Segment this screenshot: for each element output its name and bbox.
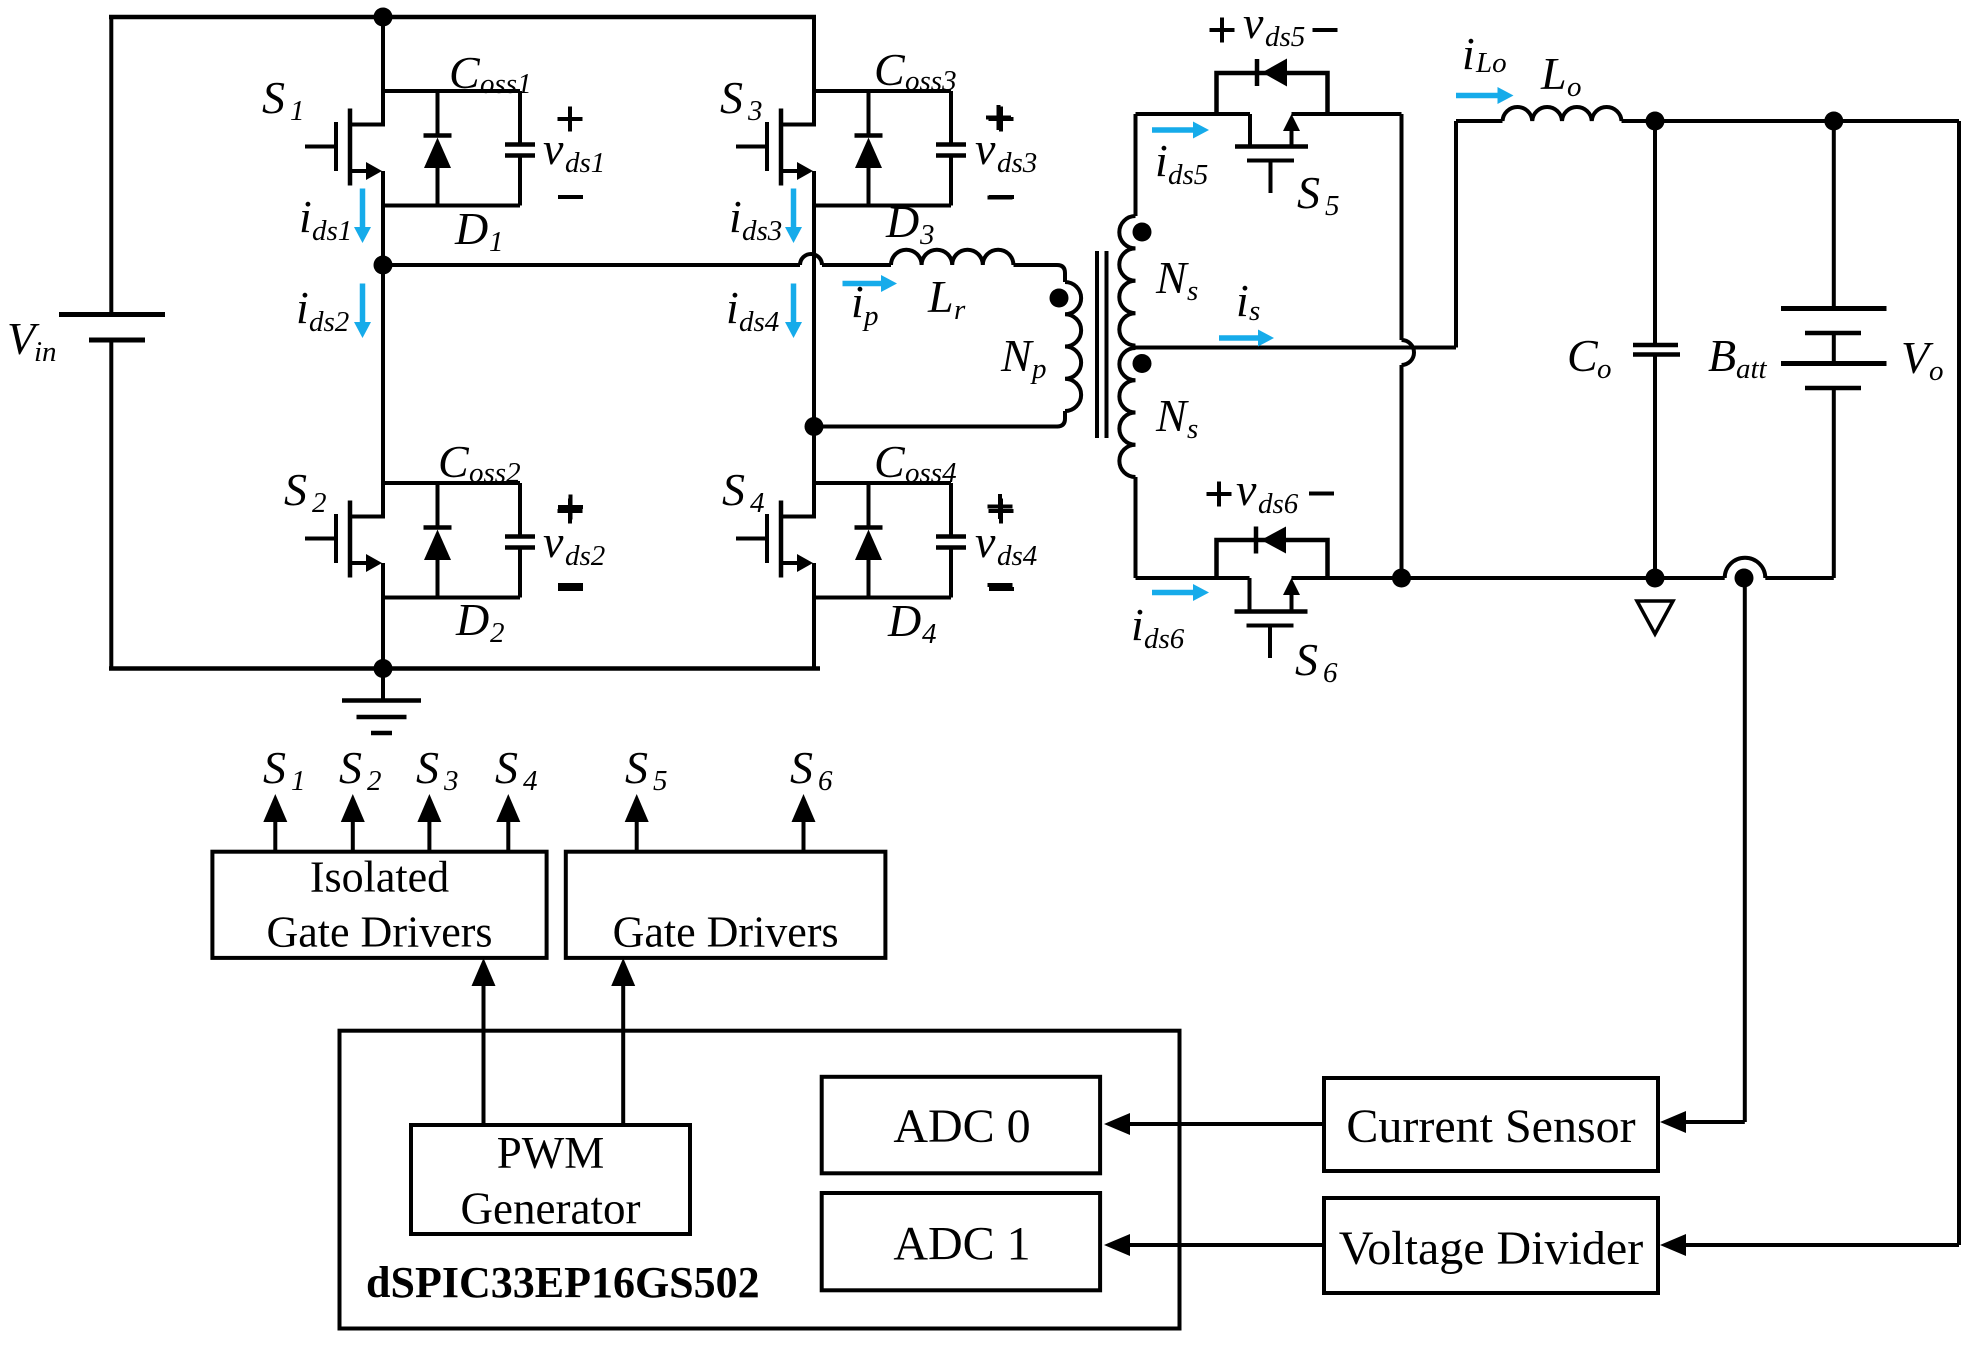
svg-text:4: 4 [523,765,538,797]
svg-text:S: S [722,464,745,515]
svg-text:Gate Drivers: Gate Drivers [266,908,492,957]
svg-text:ds4: ds4 [997,540,1037,572]
svg-text:5: 5 [1325,190,1340,222]
svg-text:N: N [1155,390,1189,441]
svg-text:v: v [543,123,564,174]
svg-text:B: B [1708,330,1736,381]
svg-text:N: N [1000,330,1034,381]
svg-text:ds3: ds3 [742,215,782,247]
svg-text:S: S [262,72,285,123]
svg-text:Current Sensor: Current Sensor [1346,1100,1635,1153]
svg-text:i: i [726,282,739,333]
svg-text:3: 3 [919,219,935,251]
svg-text:C: C [449,47,481,98]
svg-text:S: S [339,742,362,793]
svg-text:i: i [299,191,312,242]
svg-text:S: S [495,742,518,793]
svg-text:s: s [1187,275,1198,307]
svg-text:p: p [1030,353,1047,385]
svg-text:i: i [1155,135,1168,186]
svg-text:p: p [862,300,879,332]
svg-text:s: s [1249,295,1260,327]
svg-text:oss2: oss2 [469,457,521,489]
svg-text:ds1: ds1 [312,215,352,247]
svg-text:Lo: Lo [1475,47,1507,79]
svg-text:1: 1 [291,765,306,797]
svg-text:ds6: ds6 [1258,488,1299,520]
svg-text:ds4: ds4 [739,306,779,338]
svg-text:D: D [887,595,921,646]
svg-text:S: S [1297,167,1320,218]
svg-text:C: C [874,436,906,487]
svg-text:4: 4 [750,487,765,519]
svg-text:i: i [729,191,742,242]
svg-text:C: C [438,436,470,487]
svg-text:ds5: ds5 [1265,21,1305,53]
svg-text:ds3: ds3 [997,147,1037,179]
svg-text:ADC 0: ADC 0 [893,1100,1030,1153]
svg-text:ADC 1: ADC 1 [893,1218,1030,1271]
svg-text:ds5: ds5 [1168,159,1208,191]
svg-text:C: C [1567,330,1599,381]
svg-text:L: L [927,271,954,322]
svg-text:i: i [1462,28,1475,79]
svg-text:2: 2 [490,617,505,649]
svg-text:i: i [1236,275,1249,326]
svg-text:o: o [1567,71,1582,103]
svg-text:oss3: oss3 [905,65,957,97]
svg-text:r: r [954,294,966,326]
svg-text:ds2: ds2 [565,540,605,572]
svg-text:dSPIC33EP16GS502: dSPIC33EP16GS502 [366,1258,760,1307]
svg-text:att: att [1736,353,1768,385]
svg-text:1: 1 [290,95,305,127]
svg-text:Voltage Divider: Voltage Divider [1339,1222,1643,1275]
svg-text:ds2: ds2 [309,306,349,338]
svg-text:s: s [1187,413,1198,445]
svg-text:Isolated: Isolated [310,853,449,902]
svg-text:D: D [454,203,488,254]
svg-text:6: 6 [1323,657,1338,689]
svg-text:3: 3 [443,765,459,797]
svg-text:D: D [455,594,489,645]
svg-text:i: i [296,282,309,333]
svg-text:ds1: ds1 [565,147,605,179]
svg-text:Generator: Generator [461,1184,641,1234]
svg-text:i: i [1131,599,1144,650]
svg-text:v: v [543,516,564,567]
svg-text:S: S [720,72,743,123]
svg-text:o: o [1929,355,1944,387]
svg-text:S: S [263,742,286,793]
svg-text:S: S [625,742,648,793]
svg-text:4: 4 [922,618,937,650]
svg-text:C: C [874,44,906,95]
svg-text:v: v [1243,0,1264,48]
svg-text:S: S [416,742,439,793]
svg-text:6: 6 [818,765,833,797]
svg-text:S: S [790,742,813,793]
svg-text:o: o [1597,353,1612,385]
svg-text:v: v [975,123,996,174]
svg-text:Gate Drivers: Gate Drivers [613,908,839,957]
svg-text:2: 2 [312,487,327,519]
svg-text:oss1: oss1 [480,68,532,100]
svg-text:ds6: ds6 [1144,623,1185,655]
svg-text:3: 3 [747,95,763,127]
svg-text:v: v [975,516,996,567]
svg-text:v: v [1236,464,1257,515]
svg-text:PWM: PWM [497,1128,605,1178]
svg-text:1: 1 [489,226,504,258]
svg-text:S: S [284,464,307,515]
svg-text:L: L [1540,48,1567,99]
svg-text:oss4: oss4 [905,457,957,489]
svg-text:5: 5 [653,765,668,797]
svg-text:S: S [1295,634,1318,685]
svg-text:in: in [34,336,57,368]
svg-text:i: i [851,276,864,327]
svg-text:D: D [885,196,919,247]
svg-text:2: 2 [367,765,382,797]
svg-text:N: N [1155,252,1189,303]
